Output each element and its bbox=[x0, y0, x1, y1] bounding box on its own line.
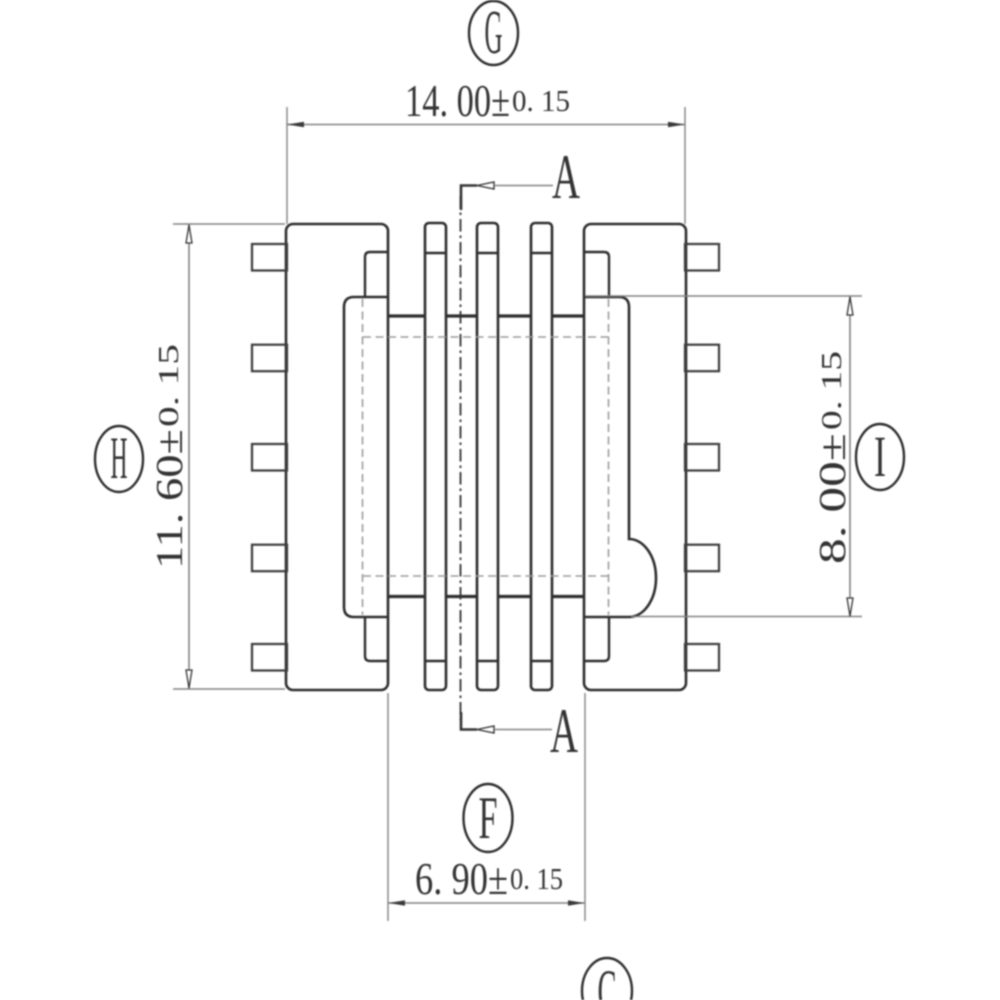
left pin 5 bbox=[252, 644, 287, 671]
hidden edge bottom bbox=[363, 575, 608, 577]
dimension 14.00 extension lines bbox=[286, 107, 288, 224]
hidden edge right bbox=[608, 299, 610, 615]
bobbin base plate outline left bbox=[344, 297, 388, 617]
right pin 3 bbox=[685, 444, 719, 471]
dimension 11.60 line bbox=[188, 224, 190, 689]
left pin 1 bbox=[252, 244, 287, 271]
flange bar 2 bbox=[477, 223, 498, 690]
winding window top edge bbox=[388, 314, 585, 317]
svg-text:C: C bbox=[598, 958, 617, 1000]
hidden edge left bbox=[362, 299, 364, 615]
dimension 6.90 line bbox=[388, 902, 585, 904]
left pin 4 bbox=[252, 545, 287, 572]
winding window bottom edge bbox=[388, 595, 585, 598]
balloon G bbox=[469, 1, 518, 65]
right pin 2 bbox=[685, 345, 719, 372]
bobbin base plate outline right with bump bbox=[585, 297, 656, 617]
dimension 14.00 line bbox=[287, 124, 685, 126]
svg-text:6. 90±: 6. 90± bbox=[415, 853, 508, 904]
flange bar 1 bbox=[425, 223, 446, 690]
flange step top-left bbox=[365, 252, 388, 297]
right pin 5 bbox=[685, 644, 719, 671]
section marker A bottom bbox=[461, 712, 477, 730]
left pin 3 bbox=[252, 444, 287, 471]
dimension 6.90 extension lines bbox=[387, 693, 389, 921]
core right block bbox=[584, 224, 686, 690]
right pin 1 bbox=[685, 244, 719, 271]
svg-text:I: I bbox=[874, 424, 886, 489]
flange step bottom-right bbox=[584, 617, 609, 661]
core left block bbox=[286, 224, 388, 690]
balloon F bbox=[464, 784, 513, 852]
svg-text:11. 60±: 11. 60± bbox=[149, 429, 191, 569]
section line A-A bbox=[460, 196, 462, 720]
svg-text:8. 00±: 8. 00± bbox=[812, 433, 854, 564]
svg-text:H: H bbox=[111, 425, 128, 491]
svg-text:0. 15: 0. 15 bbox=[153, 344, 185, 427]
flange step bottom-left bbox=[365, 617, 388, 661]
svg-text:A: A bbox=[552, 141, 580, 212]
svg-text:0. 15: 0. 15 bbox=[510, 861, 563, 896]
flange step top-right bbox=[584, 252, 609, 297]
svg-text:14. 00±: 14. 00± bbox=[405, 75, 510, 126]
balloon H bbox=[95, 426, 143, 492]
svg-text:A: A bbox=[550, 695, 578, 766]
dimension 11.60 extension lines bbox=[173, 223, 285, 225]
left pin 2 bbox=[252, 345, 287, 372]
section marker A top bbox=[461, 186, 477, 211]
dimension 8.00 extension lines bbox=[585, 295, 862, 297]
balloon C (cut off at bottom) bbox=[582, 958, 632, 1000]
svg-text:G: G bbox=[485, 0, 503, 67]
balloon I bbox=[856, 424, 904, 490]
svg-text:F: F bbox=[479, 785, 498, 851]
svg-text:0. 15: 0. 15 bbox=[512, 83, 570, 118]
flange bar 3 bbox=[531, 223, 552, 690]
svg-text:0. 15: 0. 15 bbox=[816, 351, 848, 430]
right pin 4 bbox=[685, 545, 719, 572]
dimension 8.00 line bbox=[849, 296, 851, 617]
hidden edge top bbox=[363, 336, 608, 338]
